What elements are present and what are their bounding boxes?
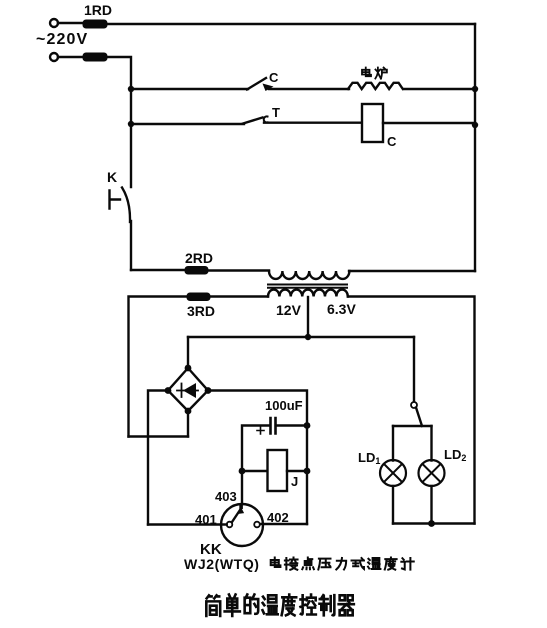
svg-text:12V: 12V (276, 302, 302, 318)
wire bridge left (148, 391, 168, 525)
wire T branch (131, 123, 244, 125)
title char 6 (319, 595, 334, 615)
sub char 2 (302, 558, 314, 570)
lamp switch (411, 402, 417, 408)
wire (383, 122, 475, 124)
wire to lamp switch (413, 337, 415, 401)
title char 3 (262, 595, 277, 614)
title char 0 (206, 595, 220, 616)
wire (269, 88, 349, 90)
switch T (243, 118, 263, 124)
sub char 7 (385, 558, 397, 570)
heater coil (348, 83, 403, 89)
wire (208, 269, 269, 271)
secondary right wire (348, 297, 475, 524)
svg-text:LD1: LD1 (358, 450, 380, 466)
wire (130, 221, 132, 270)
sub char 0 (271, 558, 281, 568)
title char 1 (225, 595, 240, 617)
svg-text:2RD: 2RD (185, 250, 213, 266)
wire (287, 470, 307, 472)
sub char 8 (401, 558, 413, 570)
dianlu char 0 (362, 68, 371, 77)
relay coil J (268, 450, 288, 491)
wire (242, 470, 268, 472)
right rail top (474, 24, 476, 271)
wire (264, 121, 362, 123)
wire 2RD branch (131, 269, 185, 271)
sub char 5 (352, 558, 364, 569)
wire from 401 (148, 523, 227, 525)
svg-text:WJ2(WTQ): WJ2(WTQ) (184, 556, 260, 572)
bridge diode symbol (177, 383, 198, 398)
fuse 2RD (185, 267, 208, 275)
bridge rectifier (168, 368, 208, 411)
sub char 1 (285, 558, 298, 570)
node (128, 86, 134, 92)
relay coil C (362, 104, 383, 142)
wire 3RD branch (210, 295, 268, 297)
svg-text:C: C (387, 134, 397, 149)
svg-text:J: J (291, 474, 298, 489)
wire (107, 57, 131, 187)
sub char 4 (336, 558, 346, 570)
fuse 3RD (187, 293, 210, 301)
node (472, 86, 478, 92)
switch C (247, 78, 266, 90)
fuse 1RD (83, 20, 107, 28)
svg-text:3RD: 3RD (187, 303, 215, 319)
sub char 6 (368, 558, 380, 569)
transformer secondary (268, 290, 348, 297)
svg-text:LD2: LD2 (444, 447, 466, 463)
sub char 3 (318, 559, 330, 570)
capacitor (276, 424, 307, 426)
terminal L2 (50, 53, 58, 61)
svg-text:403: 403 (215, 489, 237, 504)
node (472, 122, 478, 128)
node relay left (239, 468, 246, 475)
node (305, 334, 311, 340)
title char 2 (245, 595, 259, 614)
wire (58, 22, 83, 24)
terminal 401 (227, 522, 233, 528)
node (128, 121, 134, 127)
wire (404, 88, 475, 90)
svg-text:K: K (107, 169, 117, 185)
title char 5 (300, 595, 315, 615)
fuse F2 (83, 53, 107, 61)
lamp LD2 (419, 460, 445, 486)
wire bridge right (208, 391, 307, 525)
needle (232, 510, 240, 522)
wire to 402 (260, 523, 307, 525)
node (428, 520, 435, 527)
center tap wire (307, 297, 309, 337)
switch K (110, 191, 121, 209)
svg-text:100uF: 100uF (265, 398, 303, 413)
wire (58, 56, 83, 58)
transformer primary (269, 271, 349, 279)
dianlu char 1 (375, 68, 387, 79)
wire (349, 270, 475, 272)
svg-text:~220V: ~220V (36, 31, 88, 48)
wire C branch (131, 88, 248, 90)
svg-text:402: 402 (267, 510, 289, 525)
wire to bridge top (187, 337, 189, 368)
plus sign (257, 427, 264, 434)
dc top wire (188, 336, 414, 338)
terminal 402 (254, 522, 260, 528)
terminal L1 (50, 19, 58, 27)
bottom rail (393, 522, 475, 524)
wire bridge bottom (187, 411, 189, 437)
svg-text:6.3V: 6.3V (327, 301, 356, 317)
wire (129, 297, 188, 437)
KK gauge body (221, 504, 263, 546)
title char 7 (339, 595, 354, 615)
wire bottom joint (129, 435, 189, 437)
wire top rail (107, 23, 475, 25)
node relay right (304, 468, 311, 475)
title char 4 (282, 595, 297, 616)
lamp LD1 (380, 460, 406, 486)
node cap (304, 422, 311, 429)
svg-text:1RD: 1RD (84, 2, 112, 18)
svg-text:T: T (272, 105, 280, 120)
lamp rail top (393, 425, 432, 427)
transformer core (268, 285, 347, 288)
svg-text:C: C (269, 70, 279, 85)
lamp bottoms (393, 486, 432, 524)
svg-text:401: 401 (195, 512, 217, 527)
